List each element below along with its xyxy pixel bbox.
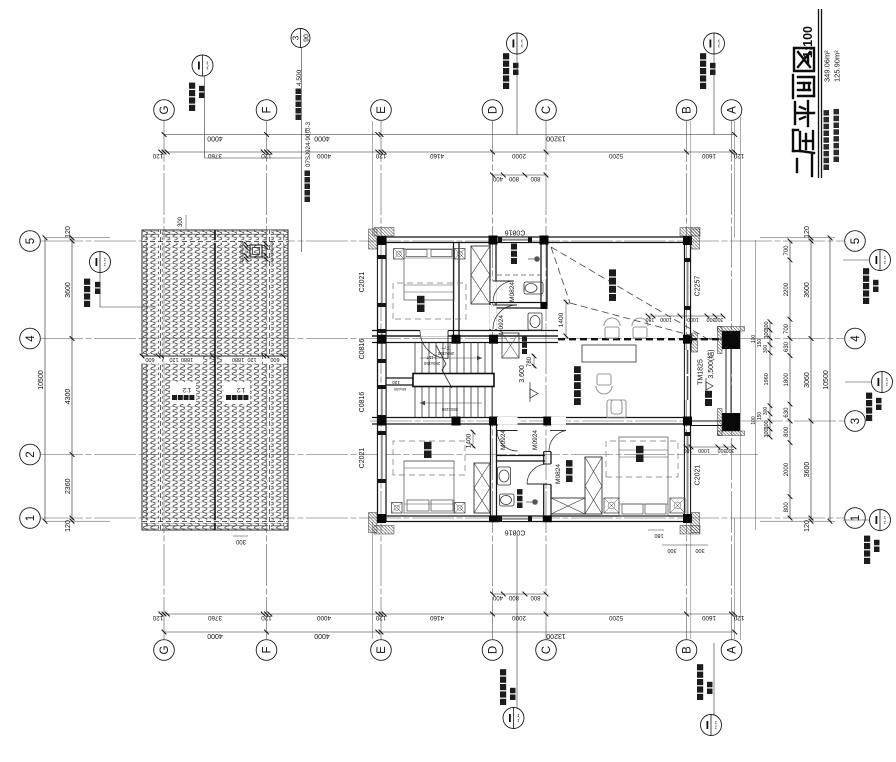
svg-text:120: 120 xyxy=(152,152,163,159)
svg-text:180: 180 xyxy=(646,316,655,322)
svg-text:3600: 3600 xyxy=(804,462,811,478)
svg-text:D: D xyxy=(488,106,500,114)
svg-text:280x150: 280x150 xyxy=(441,407,458,412)
bath2 toilet xyxy=(500,494,515,506)
svg-text:120: 120 xyxy=(152,614,163,621)
svg-text:1400: 1400 xyxy=(558,312,565,327)
bath partition wall xyxy=(490,307,547,309)
wall on axis 3 xyxy=(372,423,690,425)
svg-text:4000: 4000 xyxy=(314,135,330,142)
bedroom1 bottom wall xyxy=(453,243,455,337)
window C0816 on wall 5 (right) xyxy=(502,237,528,243)
svg-text:3600: 3600 xyxy=(804,282,811,298)
column at bath partition/C xyxy=(541,302,548,309)
bath1 shower dashed partition xyxy=(497,274,541,276)
svg-text:4000: 4000 xyxy=(317,152,332,159)
title: second floor plan glyphs (hand drawn) xyxy=(796,159,798,172)
bedroom2 wardrobe xyxy=(474,463,490,513)
left dim chain 4000/4000/13200 xyxy=(164,631,735,633)
svg-text:120: 120 xyxy=(261,614,272,621)
bottom detail dim chain (balcony) xyxy=(769,322,771,437)
svg-text:3760: 3760 xyxy=(208,614,223,621)
bedroom3 wardrobe long xyxy=(585,457,602,514)
study label 5 glyphs xyxy=(574,398,581,405)
stair center rail xyxy=(413,374,494,387)
svg-text:300: 300 xyxy=(763,345,769,354)
svg-text:1880: 1880 xyxy=(232,356,244,362)
svg-text:**-**: **-** xyxy=(717,39,722,48)
svg-text:4: 4 xyxy=(25,335,37,342)
void room dashed diagonals xyxy=(551,247,570,303)
svg-text:C: C xyxy=(541,106,553,114)
svg-text:C2021: C2021 xyxy=(359,448,366,469)
bedroom2 bed xyxy=(404,461,454,513)
interior wall C (lower segments w/ door gap) xyxy=(543,484,545,516)
svg-text:M0824: M0824 xyxy=(509,282,516,302)
bedroom3 label xyxy=(636,455,644,463)
svg-text:4160: 4160 xyxy=(430,614,445,621)
svg-text:C0816: C0816 xyxy=(359,339,366,360)
bedroom1 rug dashed xyxy=(393,283,466,319)
svg-text:13200: 13200 xyxy=(546,135,566,142)
note line 1 xyxy=(824,165,830,171)
bottom dim chain 800/2000/800/630/1800/630/700/2200/700 xyxy=(789,241,791,518)
bath2 label xyxy=(517,503,523,509)
svg-text:300: 300 xyxy=(715,316,724,322)
svg-text:5: 5 xyxy=(25,238,37,244)
svg-text:F: F xyxy=(262,106,274,113)
balcony door TM1825 in B wall xyxy=(685,350,691,400)
svg-text:120: 120 xyxy=(733,614,744,621)
study desk xyxy=(582,345,636,362)
svg-text:4000: 4000 xyxy=(207,135,223,142)
bath1 shower head xyxy=(534,256,540,262)
svg-text:90: 90 xyxy=(304,34,311,42)
svg-text:300: 300 xyxy=(718,447,727,453)
void 1400 dim xyxy=(566,302,570,304)
svg-text:120: 120 xyxy=(247,356,256,362)
svg-text:10500: 10500 xyxy=(823,370,830,390)
svg-text:1000: 1000 xyxy=(660,316,672,322)
svg-text:2200: 2200 xyxy=(784,282,790,296)
door M0924 bath2 lobby (gap in axis3 wall) xyxy=(497,417,518,425)
svg-text:120: 120 xyxy=(65,226,72,238)
columns D/1 and C/1 xyxy=(489,516,498,523)
svg-text:300: 300 xyxy=(764,420,770,429)
svg-text:1880: 1880 xyxy=(181,356,193,362)
svg-text:280x150: 280x150 xyxy=(437,351,454,356)
bedroom2 rug dashed xyxy=(393,441,465,475)
svg-text:4: 4 xyxy=(850,335,862,342)
interior wall D (lower, bedroom2/bath2) xyxy=(490,425,492,516)
balcony corner columns on A axis xyxy=(722,413,740,431)
axis bubbles: letters left xyxy=(154,640,175,661)
svg-text:1800: 1800 xyxy=(784,372,790,386)
corner column B/5 with hatch xyxy=(683,236,692,245)
svg-text:700: 700 xyxy=(784,323,790,334)
svg-text:300: 300 xyxy=(707,316,716,322)
svg-text:C0816: C0816 xyxy=(505,229,526,236)
svg-text:800: 800 xyxy=(508,175,519,181)
wall-face extension lines xyxy=(45,520,110,522)
bedroom1 label xyxy=(417,305,425,313)
svg-text:120: 120 xyxy=(65,520,72,532)
columns on axis 3: E, D, B xyxy=(377,417,386,426)
svg-text:120 300 120: 120 300 120 xyxy=(269,240,274,263)
svg-text:**-**: **-** xyxy=(883,516,888,525)
svg-text:1:2: 1:2 xyxy=(236,386,245,392)
cloakroom wardrobe xyxy=(551,498,585,514)
callout: node detail (bottom mid) xyxy=(872,372,893,393)
svg-text:120: 120 xyxy=(375,152,386,159)
canopy note row2: precast slab ref xyxy=(305,197,311,203)
svg-text:800: 800 xyxy=(784,426,790,437)
stair break line xyxy=(436,345,446,364)
svg-text:C: C xyxy=(541,646,553,654)
corner column E/1 with hatch xyxy=(377,514,386,523)
corner column B/1 with hatch xyxy=(683,514,692,523)
top dim chain 120/2360/4300/3600/120 xyxy=(71,238,73,521)
callout: eave detail (top area) xyxy=(192,55,213,76)
svg-text:A: A xyxy=(727,646,739,654)
svg-text:800: 800 xyxy=(530,175,541,181)
top dim chain overall 10500 xyxy=(44,238,46,521)
axis bubbles: numbers top xyxy=(20,508,41,529)
svg-text:C0816: C0816 xyxy=(359,392,366,413)
svg-text:300: 300 xyxy=(764,321,770,330)
svg-text:780: 780 xyxy=(527,356,533,367)
roof eave inner line xyxy=(146,234,284,526)
svg-text:300: 300 xyxy=(178,216,184,227)
svg-text:100: 100 xyxy=(751,416,757,425)
exterior wall 1 (left) xyxy=(378,521,691,523)
windows on B wall: C2257, C2021 xyxy=(685,262,691,306)
bottom dim chain 120/3600/3060/3600/120 xyxy=(810,238,812,521)
svg-text:5200: 5200 xyxy=(609,614,624,621)
right dim chain 120/3760/120/4000/120/4160/2000/5200/1600/120 xyxy=(161,151,735,153)
svg-text:C0816: C0816 xyxy=(505,529,526,536)
svg-text:4160: 4160 xyxy=(430,152,445,159)
left dim chain 120/3760/120/4000/120/4160/2000/5200/1600/120 xyxy=(161,613,735,615)
note line 2 xyxy=(834,157,840,163)
washer box with X xyxy=(502,333,519,358)
title underline double xyxy=(818,9,820,178)
bedroom3 rug dashed xyxy=(606,441,678,477)
svg-text:3600: 3600 xyxy=(65,282,72,298)
bedroom1 nightstands xyxy=(394,249,405,260)
roof ridge xyxy=(214,230,216,530)
svg-text:**-**: **-** xyxy=(517,714,522,723)
svg-text:120: 120 xyxy=(733,152,744,159)
roof: tiled hatch xyxy=(142,230,288,530)
svg-text:1400: 1400 xyxy=(466,433,473,448)
svg-text:10500: 10500 xyxy=(38,370,45,390)
svg-text:13200: 13200 xyxy=(546,632,566,639)
stair direction arrows + annotation blobs xyxy=(420,357,482,359)
svg-text:4000: 4000 xyxy=(314,632,330,639)
svg-text:4.500: 4.500 xyxy=(296,69,303,86)
wall on axis 4 (stair side) xyxy=(372,342,558,344)
svg-text:300: 300 xyxy=(726,447,735,453)
roof hidden wall lines (dashed, white halo) xyxy=(159,230,162,530)
canopy detail circle 3/90 xyxy=(291,29,310,48)
svg-text:600: 600 xyxy=(145,356,154,362)
svg-text:07SJ924-90页-3: 07SJ924-90页-3 xyxy=(305,121,312,167)
svg-text:3060: 3060 xyxy=(804,372,811,388)
svg-text:120: 120 xyxy=(169,356,178,362)
bedroom1 wardrobe xyxy=(471,246,490,304)
svg-text:C2021: C2021 xyxy=(695,465,702,486)
svg-text:**-**: **-** xyxy=(885,378,890,387)
bottom dim chain overall 10500 xyxy=(829,238,831,521)
svg-text:F: F xyxy=(262,646,274,653)
bath1 label xyxy=(511,258,517,264)
svg-text:2000: 2000 xyxy=(512,614,527,621)
svg-text:G: G xyxy=(159,105,171,114)
svg-text:1600: 1600 xyxy=(702,152,717,159)
corner column E/5 with hatch pilaster xyxy=(377,236,386,245)
svg-text:D: D xyxy=(488,646,500,654)
svg-text:180: 180 xyxy=(654,532,663,538)
open-void heavy dashed edge on axis 4 xyxy=(558,338,740,340)
cloakroom label xyxy=(566,476,573,483)
left dim chain 400/800/800 xyxy=(493,593,547,595)
columns on axis 4: E, D, B xyxy=(377,335,386,344)
interior wall D (upper) xyxy=(489,243,491,331)
interior wall on axis 2 (bath2 lobby) xyxy=(497,460,546,462)
axis bubbles: numbers bottom xyxy=(845,508,866,529)
roof mid vertical dim chain 600/120/1880/1880/120/600 xyxy=(138,356,162,364)
svg-text:125.90m²: 125.90m² xyxy=(833,50,842,82)
exterior wall 5 (right) xyxy=(378,242,691,244)
svg-text:800: 800 xyxy=(508,594,519,600)
roof slope labels 1:2 xyxy=(170,382,196,404)
bedroom2 nightstands xyxy=(392,503,403,514)
callout: node detail 1 (right) xyxy=(704,33,725,54)
svg-text:2: 2 xyxy=(25,451,37,457)
callout: node detail 1 (left) xyxy=(701,715,722,736)
svg-text:400: 400 xyxy=(492,594,503,600)
grid axes (dash-dot centerlines) xyxy=(41,517,844,519)
callout: eave detail (left of roof) xyxy=(90,252,111,273)
callout: wall detail 3 (right, window area) xyxy=(507,33,528,54)
door M0924 wash lobby (gap in D wall) xyxy=(490,305,497,329)
svg-text:630: 630 xyxy=(784,407,790,418)
bath2 shower head xyxy=(532,499,538,505)
axis bubbles: letters right xyxy=(154,100,175,121)
bedroom3 nightstands xyxy=(604,498,619,513)
svg-text:E: E xyxy=(376,106,388,114)
svg-text:100: 100 xyxy=(751,335,757,344)
svg-text:1960: 1960 xyxy=(764,373,770,385)
stairwell edge wall stub xyxy=(386,384,415,386)
svg-text:630: 630 xyxy=(784,341,790,352)
svg-text:3.500(结): 3.500(结) xyxy=(706,349,715,378)
svg-text:**-**: **-** xyxy=(520,39,525,48)
svg-text:700: 700 xyxy=(784,245,790,256)
svg-text:3.600: 3.600 xyxy=(519,365,526,383)
study armchair gray xyxy=(607,400,626,418)
svg-text:120: 120 xyxy=(804,520,811,532)
svg-text:M0924: M0924 xyxy=(532,430,539,450)
canopy leader xyxy=(301,48,303,159)
svg-text:B: B xyxy=(682,646,694,654)
bath2 basin against D-lower wall xyxy=(498,467,511,485)
svg-text:A: A xyxy=(727,106,739,114)
svg-text:E: E xyxy=(376,646,388,654)
roof vent detail box xyxy=(250,245,262,257)
door M0924 bedroom1 (gap in side wall) xyxy=(420,330,448,337)
bedroom2 label xyxy=(424,451,432,459)
svg-text:G: G xyxy=(159,645,171,654)
svg-text:TM1825: TM1825 xyxy=(698,359,705,385)
svg-text:1000: 1000 xyxy=(698,447,710,453)
window C0816 on wall 1 (left) xyxy=(502,516,528,522)
svg-text:150: 150 xyxy=(757,412,763,421)
svg-text:150: 150 xyxy=(757,339,763,348)
bedroom3 bed xyxy=(619,437,668,516)
svg-text:4000: 4000 xyxy=(317,614,332,621)
door M0924 cloakroom (gap in axis3 wall, right of C) xyxy=(551,417,566,425)
study chairs gray xyxy=(604,318,620,338)
svg-text:180: 180 xyxy=(684,447,693,453)
svg-text:**-**: **-** xyxy=(883,256,888,265)
svg-text:5: 5 xyxy=(850,238,862,244)
svg-text:300: 300 xyxy=(235,538,246,544)
stair risers lower flight xyxy=(414,387,416,418)
svg-text:400: 400 xyxy=(492,175,503,181)
void room label 4 glyphs xyxy=(609,294,616,301)
bedroom1 bed xyxy=(404,249,454,300)
svg-text:2000: 2000 xyxy=(784,462,790,476)
columns at bedroom1 side wall junctions xyxy=(452,335,461,344)
canopy note row1: level 4.500 xyxy=(296,115,302,121)
svg-text:2000: 2000 xyxy=(512,152,527,159)
svg-text:3: 3 xyxy=(850,418,862,424)
svg-text:600: 600 xyxy=(270,356,279,362)
stair risers upper flight xyxy=(414,343,416,374)
svg-text:**-**: **-** xyxy=(714,721,719,730)
svg-text:1000: 1000 xyxy=(687,316,699,322)
door M0824 bath2 (gap in C-lower wall) xyxy=(527,483,547,485)
exterior wall E (top) xyxy=(377,238,379,523)
wash basin xyxy=(528,313,542,330)
svg-text:B: B xyxy=(682,106,694,114)
svg-text:300: 300 xyxy=(667,547,676,553)
svg-text:120: 120 xyxy=(804,226,811,238)
callout: wall detail 3 (left) xyxy=(503,708,524,729)
balcony label (blobs) xyxy=(705,399,712,406)
svg-text:1: 1 xyxy=(25,515,37,521)
svg-text:120 300 120: 120 300 120 xyxy=(239,240,244,263)
svg-text:C2257: C2257 xyxy=(695,276,702,297)
svg-text:M0824: M0824 xyxy=(555,464,562,484)
svg-text:**-**: **-** xyxy=(103,258,108,267)
bath1 fixtures: toilet xyxy=(524,282,543,294)
callout: wall detail 2 (bottom, near 5) xyxy=(870,250,891,271)
svg-text:300: 300 xyxy=(763,407,769,416)
exterior wall B (bottom) xyxy=(684,238,686,523)
bedroom1 side wall (double with axis-4 wall, runs to void edge) xyxy=(372,335,558,337)
balcony rails xyxy=(691,425,723,427)
svg-text:3: 3 xyxy=(292,35,301,40)
svg-text:800: 800 xyxy=(784,502,790,513)
svg-text:800: 800 xyxy=(530,594,541,600)
B-wall C2257 side dim chain 180/1000/1000/300/300 xyxy=(648,315,723,317)
svg-text:M0924: M0924 xyxy=(500,430,507,450)
svg-text:1:100: 1:100 xyxy=(801,26,815,58)
svg-text:**-**: **-** xyxy=(206,61,211,70)
right dim chain 4000/4000/13200 xyxy=(164,134,735,136)
svg-text:349.06m²: 349.06m² xyxy=(823,50,832,82)
interior wall C xyxy=(540,243,542,307)
svg-text:300: 300 xyxy=(695,547,704,553)
svg-text:4000: 4000 xyxy=(207,632,223,639)
svg-text:60x150: 60x150 xyxy=(394,387,406,391)
lower-floor eave lines below A axis xyxy=(740,117,742,640)
svg-text:4300: 4300 xyxy=(65,389,72,405)
svg-text:120: 120 xyxy=(392,380,400,385)
svg-text:1600: 1600 xyxy=(702,614,717,621)
columns on wall 5 at D and C xyxy=(489,236,498,245)
callout: wall detail (bottom, near 1) xyxy=(870,510,891,531)
svg-text:C2021: C2021 xyxy=(359,272,366,293)
door M0824 bath1 (gap in D wall) xyxy=(490,281,497,302)
svg-text:280x150: 280x150 xyxy=(423,361,440,366)
svg-text:120: 120 xyxy=(375,614,386,621)
svg-text:2360: 2360 xyxy=(65,478,72,494)
svg-text:5200: 5200 xyxy=(609,152,624,159)
right dim chain 400/800/800 xyxy=(493,174,547,176)
column C/3 xyxy=(543,417,551,426)
windows on E wall: C2021,C0816,C0816,C2021 xyxy=(378,259,387,303)
svg-text:1:2: 1:2 xyxy=(182,386,191,392)
lower side dim chain 180/1000/300/300 xyxy=(686,446,734,448)
svg-text:M0924: M0924 xyxy=(498,315,505,335)
